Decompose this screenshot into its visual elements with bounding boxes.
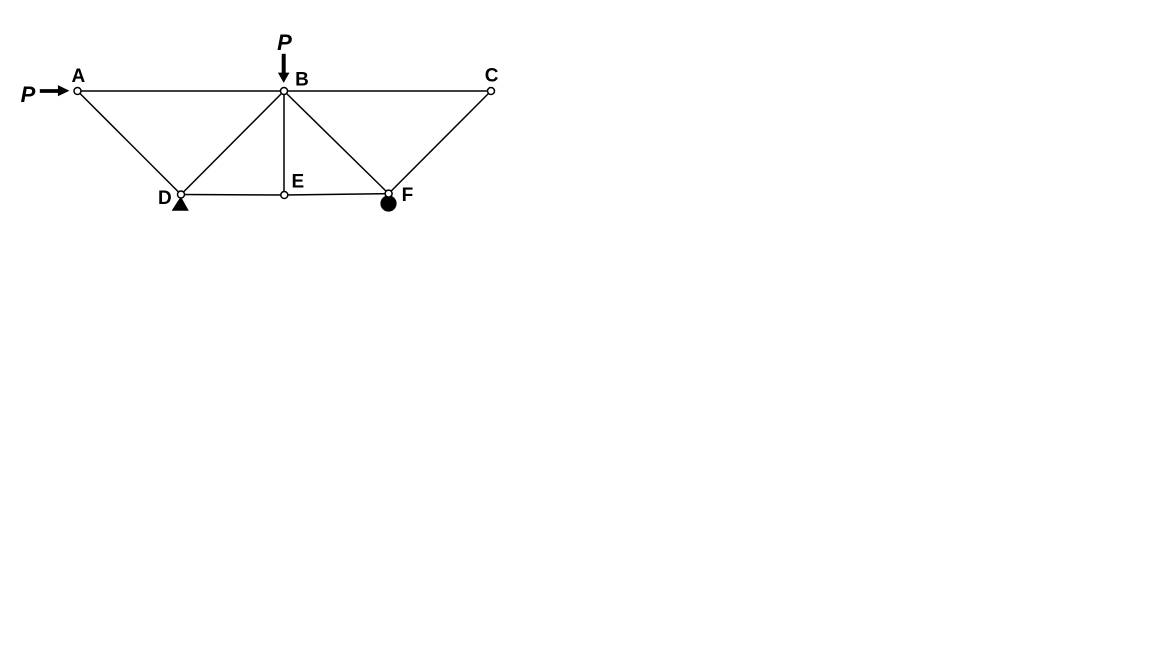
roller support at F	[380, 195, 396, 211]
node E	[281, 192, 288, 199]
node B	[281, 88, 288, 95]
wire member D-B (diagonal)	[181, 91, 284, 195]
node A	[74, 88, 81, 95]
svg-text:E: E	[292, 172, 305, 193]
svg-text:A: A	[72, 66, 86, 87]
svg-text:P: P	[277, 30, 292, 55]
wire member B-C (top chord)	[284, 90, 491, 92]
wire member A-D (diagonal)	[78, 91, 182, 195]
wire member D-E (bottom chord)	[181, 194, 284, 197]
svg-text:D: D	[158, 188, 172, 209]
wire member B-E (vertical)	[283, 91, 285, 195]
wire member B-F (diagonal)	[284, 91, 389, 194]
wire member E-F (bottom chord)	[284, 194, 389, 195]
svg-text:P: P	[21, 82, 36, 107]
load arrow P at A (horizontal)	[40, 85, 70, 96]
wire member F-C (diagonal)	[389, 91, 491, 194]
pin support at D	[172, 197, 189, 211]
load arrow P at B (vertical)	[278, 54, 290, 83]
svg-text:B: B	[295, 70, 309, 91]
node F	[385, 190, 392, 197]
node D	[178, 191, 185, 198]
svg-text:F: F	[402, 185, 414, 206]
node C	[488, 88, 495, 95]
wire member A-B (top chord)	[78, 90, 285, 92]
svg-text:C: C	[485, 66, 499, 87]
